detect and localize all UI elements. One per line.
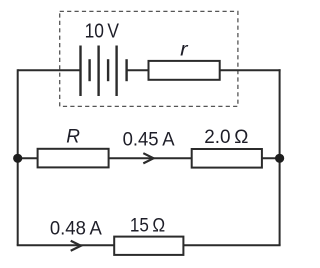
svg-text:0.48 A: 0.48 A xyxy=(50,217,102,239)
wire middle-left (node to R) xyxy=(18,157,38,159)
resistor R box xyxy=(38,149,109,168)
resistor 2.0 ohm box xyxy=(192,149,262,168)
resistor r (internal resistance) box xyxy=(149,61,220,80)
wire resistor r to top-right corner xyxy=(220,69,281,71)
svg-text:10 V: 10 V xyxy=(85,21,120,43)
junction dot right node xyxy=(275,154,284,163)
svg-text:0.45 A: 0.45 A xyxy=(123,128,175,150)
wire right vertical xyxy=(279,69,281,245)
wire battery to resistor r xyxy=(127,69,149,71)
current arrow 0.48 A xyxy=(71,241,81,251)
wire top-left horizontal xyxy=(18,69,81,71)
current arrow 0.45 A xyxy=(143,153,153,163)
wire left vertical xyxy=(17,69,19,245)
wire middle between R and 2.0 ohm xyxy=(109,157,193,159)
svg-text:15 Ω: 15 Ω xyxy=(130,214,165,236)
wire middle-right (2.0 ohm to node) xyxy=(262,157,280,159)
svg-text:2.0 Ω: 2.0 Ω xyxy=(204,126,248,148)
junction dot left node xyxy=(13,154,22,163)
dashed battery enclosure box xyxy=(60,11,238,106)
resistor 15 ohm box xyxy=(114,237,183,255)
wire bottom-right (15 ohm to corner) xyxy=(183,244,280,246)
wire bottom-left (corner to 15 ohm) xyxy=(17,244,115,246)
svg-text:R: R xyxy=(66,126,80,147)
battery cells (3 cells: long/short plates) xyxy=(81,46,127,97)
